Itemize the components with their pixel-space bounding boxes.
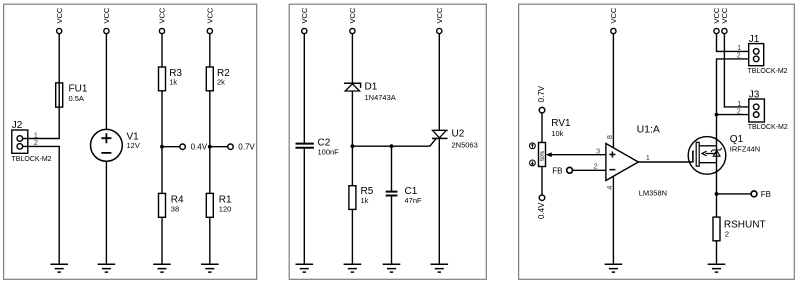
svg-text:2: 2 bbox=[737, 51, 741, 60]
potentiometer RV1 10k bbox=[530, 118, 572, 167]
power terminal VCC (R3 branch) bbox=[158, 7, 167, 34]
wire R5 to ground bbox=[351, 209, 353, 264]
svg-text:VCC: VCC bbox=[720, 7, 729, 23]
power terminal VCC (D1 branch) bbox=[348, 7, 357, 34]
svg-text:VCC: VCC bbox=[205, 7, 214, 23]
wire drain section above RSHUNT bbox=[716, 194, 718, 217]
svg-text:47nF: 47nF bbox=[405, 196, 423, 205]
junction node 0.4V bbox=[160, 145, 164, 149]
node terminal 0.4V bbox=[180, 143, 208, 152]
node terminal 0.7V bbox=[228, 143, 256, 152]
wire to 0.7V terminal bbox=[210, 146, 228, 148]
svg-text:VCC: VCC bbox=[102, 7, 111, 23]
wire J3 pin2 bbox=[717, 114, 754, 116]
ground (R4 branch) bbox=[153, 264, 171, 272]
svg-text:100nF: 100nF bbox=[318, 148, 340, 157]
capacitor C2 100nF bbox=[296, 138, 340, 157]
wiper wire to op-amp pin3 bbox=[550, 154, 606, 156]
ground (C2 branch) bbox=[296, 264, 314, 272]
ground (R5 branch) bbox=[344, 264, 362, 272]
power terminal VCC (J3 pin1) bbox=[720, 7, 729, 34]
svg-text:120: 120 bbox=[219, 204, 232, 213]
wire op-amp output to Q1 gate bbox=[638, 161, 692, 163]
svg-text:TBLOCK-M2: TBLOCK-M2 bbox=[12, 156, 52, 163]
svg-text:RSHUNT: RSHUNT bbox=[724, 220, 766, 231]
svg-text:VCC: VCC bbox=[348, 7, 357, 23]
resistor R2 2k bbox=[206, 67, 230, 91]
node terminal 0.4V (pot bottom) bbox=[537, 195, 546, 219]
svg-text:2: 2 bbox=[594, 162, 598, 171]
wire junction to C1 bbox=[391, 146, 393, 191]
power terminal VCC (R2 branch) bbox=[205, 7, 214, 34]
panel 1 border bbox=[4, 4, 257, 279]
wire J1 pin2 to Q1 drain bbox=[717, 59, 754, 194]
junction node (source / FB / RSHUNT) bbox=[715, 192, 719, 196]
resistor RSHUNT 2 bbox=[713, 217, 766, 241]
svg-text:FU1: FU1 bbox=[69, 83, 88, 94]
wire VCC to C2 bbox=[303, 34, 305, 144]
wire VCC to J3 pin1 bbox=[724, 34, 753, 107]
svg-text:VCC: VCC bbox=[609, 7, 618, 23]
ground (V1 branch) bbox=[98, 264, 116, 272]
ground (R1 branch) bbox=[201, 264, 219, 272]
resistor R4 38 bbox=[159, 193, 185, 217]
svg-text:J2: J2 bbox=[12, 120, 23, 131]
svg-text:U1:A: U1:A bbox=[637, 124, 660, 136]
svg-text:1k: 1k bbox=[361, 196, 369, 205]
fuse FU1 bbox=[56, 83, 88, 107]
junction node (J3 pin2 / drain) bbox=[715, 113, 719, 117]
wire op-amp pin4 to ground bbox=[612, 176, 614, 264]
junction node (D1/R5/gate) bbox=[351, 144, 355, 148]
wire 0.7V to RV1 bbox=[541, 113, 543, 143]
svg-text:10k: 10k bbox=[551, 129, 563, 138]
svg-text:VCC: VCC bbox=[435, 7, 444, 23]
svg-text:TBLOCK-M2: TBLOCK-M2 bbox=[748, 68, 788, 75]
svg-text:2: 2 bbox=[737, 107, 741, 116]
zener diode D1 1N4743A bbox=[344, 82, 396, 103]
svg-text:8: 8 bbox=[605, 135, 614, 139]
svg-text:VCC: VCC bbox=[55, 7, 64, 23]
resistor R1 120 bbox=[206, 193, 232, 217]
wire D1 to R5 bbox=[351, 91, 353, 186]
wire VCC to R3 bbox=[161, 34, 163, 67]
wire C1 to ground bbox=[391, 196, 393, 265]
panel 3 border bbox=[519, 4, 795, 279]
svg-text:4: 4 bbox=[605, 186, 614, 190]
svg-text:2N5063: 2N5063 bbox=[452, 141, 478, 150]
wire fuse to J2 pin1 bbox=[23, 107, 60, 138]
connector J2 bbox=[12, 120, 52, 163]
wire V1 to ground bbox=[105, 161, 107, 264]
svg-text:J1: J1 bbox=[749, 34, 760, 45]
svg-text:U2: U2 bbox=[452, 129, 465, 140]
wire FB to op-amp pin2 bbox=[573, 169, 606, 171]
wire U2 cathode to ground bbox=[438, 138, 440, 264]
power terminal VCC (fuse branch) bbox=[55, 7, 64, 34]
power terminal VCC (op-amp) bbox=[609, 7, 618, 34]
wire C2 to ground bbox=[303, 148, 305, 265]
wire junction to U2 gate bbox=[352, 138, 436, 146]
power terminal VCC (V1 branch) bbox=[102, 7, 111, 34]
junction node (C1) bbox=[390, 144, 394, 148]
svg-text:3: 3 bbox=[596, 147, 600, 156]
wire R1 to ground bbox=[209, 217, 211, 264]
wire R4 to ground bbox=[161, 217, 163, 264]
power terminal VCC (C2 branch) bbox=[300, 7, 309, 34]
svg-text:D1: D1 bbox=[365, 82, 378, 93]
svg-text:12V: 12V bbox=[127, 141, 140, 150]
wire VCC to op-amp pin8 bbox=[612, 34, 614, 148]
svg-text:0.5A: 0.5A bbox=[69, 94, 84, 103]
wire to FB terminal bbox=[717, 193, 751, 195]
junction node 0.7V bbox=[208, 145, 212, 149]
svg-text:VCC: VCC bbox=[300, 7, 309, 23]
op-amp U1:A LM358N bbox=[594, 124, 668, 198]
svg-text:VCC: VCC bbox=[158, 7, 167, 23]
ground (C1 branch) bbox=[383, 264, 401, 272]
wire VCC to D1 bbox=[351, 34, 353, 84]
svg-text:2k: 2k bbox=[217, 77, 225, 86]
power terminal VCC (U2 branch) bbox=[435, 7, 444, 34]
svg-text:TBLOCK-M2: TBLOCK-M2 bbox=[748, 124, 788, 131]
svg-text:FB: FB bbox=[761, 190, 771, 199]
wire R3 to R4 bbox=[161, 91, 163, 194]
panel 2 border bbox=[289, 4, 486, 279]
ground (RSHUNT branch) bbox=[708, 264, 726, 272]
resistor R5 1k bbox=[349, 186, 374, 210]
wire to 0.4V terminal bbox=[162, 146, 180, 148]
node terminal FB (inverting input) bbox=[552, 166, 572, 175]
node terminal 0.7V (pot top) bbox=[537, 85, 546, 113]
MOSFET Q1 IRFZ44N bbox=[688, 134, 760, 174]
connector J3 bbox=[737, 89, 788, 131]
wire VCC to V1 bbox=[105, 34, 107, 130]
wire VCC to fuse bbox=[58, 34, 60, 108]
svg-text:0.4V: 0.4V bbox=[191, 143, 208, 152]
ground (op-amp branch) bbox=[605, 264, 623, 272]
svg-text:1N4743A: 1N4743A bbox=[365, 93, 396, 102]
svg-text:2: 2 bbox=[725, 229, 729, 238]
svg-text:J3: J3 bbox=[749, 89, 760, 100]
svg-text:0.7V: 0.7V bbox=[238, 143, 255, 152]
svg-text:50%: 50% bbox=[540, 150, 546, 161]
battery V1 12V bbox=[91, 129, 140, 161]
svg-text:RV1: RV1 bbox=[551, 118, 571, 129]
svg-text:1: 1 bbox=[646, 153, 650, 162]
wire RSHUNT to ground bbox=[716, 241, 718, 264]
ground (U2 branch) bbox=[431, 264, 449, 272]
svg-text:38: 38 bbox=[171, 204, 179, 213]
wiper arrowhead bbox=[546, 152, 552, 157]
wire RV1 to 0.4V bbox=[541, 167, 543, 195]
wire VCC to U2 anode bbox=[438, 34, 440, 131]
svg-text:1k: 1k bbox=[169, 77, 177, 86]
capacitor C1 47nF bbox=[386, 186, 422, 205]
node terminal FB (shunt sense) bbox=[751, 190, 771, 199]
svg-text:0.4V: 0.4V bbox=[537, 202, 546, 219]
resistor R3 1k bbox=[159, 67, 183, 91]
svg-text:FB: FB bbox=[552, 166, 562, 175]
svg-text:LM358N: LM358N bbox=[639, 189, 667, 198]
connector J1 bbox=[737, 34, 788, 75]
svg-text:IRFZ44N: IRFZ44N bbox=[730, 144, 760, 153]
power terminal VCC (J1 pin1) bbox=[712, 7, 721, 34]
wire VCC to J1 pin1 bbox=[717, 34, 754, 52]
wire R2 to R1 bbox=[209, 91, 211, 194]
ground (J2 branch) bbox=[50, 264, 68, 272]
wire J2 pin2 to ground bbox=[23, 146, 60, 264]
svg-text:0.7V: 0.7V bbox=[537, 85, 546, 102]
wire VCC to R2 bbox=[209, 34, 211, 67]
SCR U2 2N5063 bbox=[432, 129, 478, 150]
